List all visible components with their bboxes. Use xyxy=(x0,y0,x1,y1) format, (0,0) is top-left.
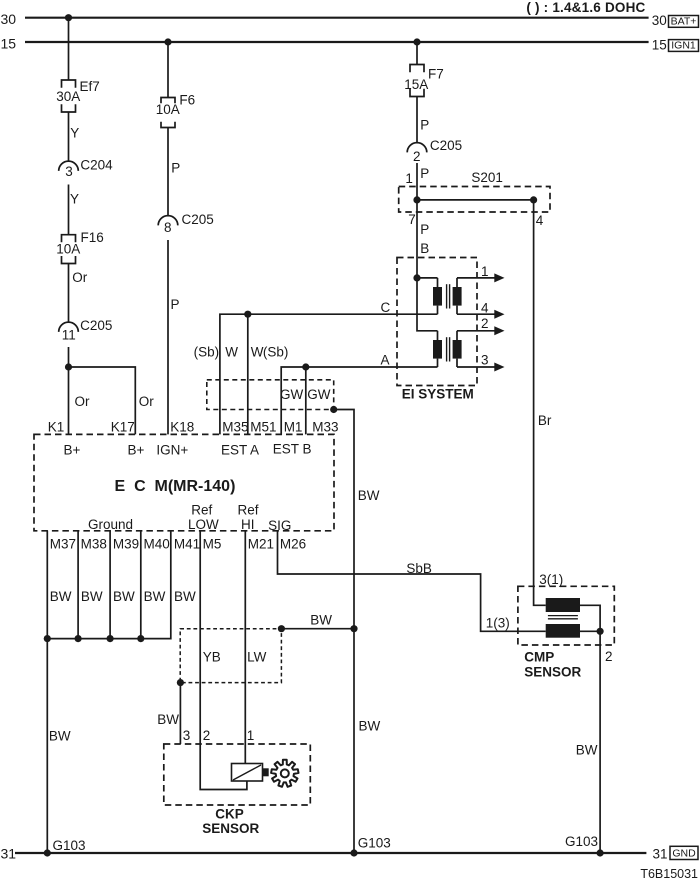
svg-text:30: 30 xyxy=(652,13,667,28)
svg-text:1: 1 xyxy=(247,728,255,743)
svg-text:BW: BW xyxy=(81,589,103,604)
pin M33 xyxy=(312,419,338,434)
svg-text:4: 4 xyxy=(481,300,489,315)
CKP pin 3 xyxy=(183,728,191,743)
svg-text:( ) : 1.4&1.6 DOHC: ( ) : 1.4&1.6 DOHC xyxy=(526,0,645,15)
ground G103 left xyxy=(44,838,86,857)
title note xyxy=(526,0,645,15)
wire BW shield to CKP pin 3 xyxy=(157,683,180,744)
svg-text:2: 2 xyxy=(203,728,211,743)
svg-text:31: 31 xyxy=(1,845,17,861)
svg-text:4: 4 xyxy=(536,213,544,228)
ignition coil 1 core xyxy=(447,284,450,308)
svg-text:P: P xyxy=(420,222,429,237)
svg-text:BW: BW xyxy=(310,613,332,628)
svg-text:P: P xyxy=(420,117,429,132)
svg-text:2: 2 xyxy=(481,316,489,331)
BAT+ terminal box xyxy=(669,16,699,28)
CMP pin 2 xyxy=(605,649,613,664)
pin K18 xyxy=(170,419,194,434)
svg-text:M5: M5 xyxy=(203,537,222,552)
wire feed to coil 1 primary xyxy=(417,277,438,279)
node shield drain xyxy=(330,406,337,413)
bus 31 xyxy=(1,845,668,861)
EST shield box xyxy=(207,380,334,410)
node on BW down-wire xyxy=(350,625,357,632)
svg-text:8: 8 xyxy=(164,220,172,235)
pin name Ground xyxy=(88,517,133,532)
bus 15 xyxy=(1,35,667,52)
node ground bus M40 xyxy=(137,635,144,642)
svg-text:1: 1 xyxy=(405,171,413,186)
svg-text:B: B xyxy=(420,241,429,256)
pin name IGN+ xyxy=(156,443,188,458)
svg-text:11: 11 xyxy=(62,328,76,343)
wire YB M5 to CKP pin 2 xyxy=(200,531,247,790)
wire BW M40 xyxy=(141,531,166,639)
svg-text:GW: GW xyxy=(280,387,304,402)
node CKP shield drain bottom xyxy=(177,679,184,686)
svg-text:2: 2 xyxy=(413,149,421,164)
CMP pin 1(3) xyxy=(486,615,510,630)
svg-text:M1: M1 xyxy=(284,419,303,434)
svg-text:C205: C205 xyxy=(182,212,214,227)
svg-text:BW: BW xyxy=(113,589,135,604)
svg-text:C: C xyxy=(381,300,391,315)
svg-text:3: 3 xyxy=(183,728,191,743)
svg-text:BW: BW xyxy=(49,729,71,744)
CKP pickup coil element xyxy=(232,764,269,782)
CKP reluctor gear xyxy=(271,760,298,787)
svg-text:M37: M37 xyxy=(50,537,76,552)
pin M21 xyxy=(248,537,274,552)
pin M38 xyxy=(81,537,107,552)
svg-text:K1: K1 xyxy=(48,419,65,434)
node M33 tap xyxy=(302,363,309,370)
svg-text:C205: C205 xyxy=(80,318,112,333)
pin M41 xyxy=(174,537,200,552)
pin M39 xyxy=(113,537,139,552)
node M51 tap xyxy=(244,311,251,318)
svg-text:SENSOR: SENSOR xyxy=(202,821,259,836)
node S201 left xyxy=(413,196,420,203)
svg-text:G103: G103 xyxy=(565,834,598,849)
svg-text:IGN1: IGN1 xyxy=(671,40,696,52)
pin name Ref HI xyxy=(238,502,259,532)
svg-text:M21: M21 xyxy=(248,537,274,552)
CKP pin 1 xyxy=(247,728,255,743)
svg-text:EST A: EST A xyxy=(221,443,259,458)
svg-text:A: A xyxy=(381,352,390,367)
svg-text:Y: Y xyxy=(70,192,79,207)
svg-text:BW: BW xyxy=(157,712,179,727)
svg-text:2: 2 xyxy=(605,649,613,664)
wire Y C204 to fuse F16 xyxy=(69,185,80,236)
svg-text:30: 30 xyxy=(1,11,17,27)
svg-text:F16: F16 xyxy=(81,230,104,245)
pin M51 xyxy=(250,419,276,434)
node A wire label xyxy=(381,352,390,367)
node B+ split xyxy=(65,363,72,370)
svg-text:W: W xyxy=(251,345,264,360)
wire BW M38 xyxy=(78,531,103,639)
svg-text:G103: G103 xyxy=(358,835,391,850)
svg-text:Or: Or xyxy=(139,394,155,409)
CMP element lower bar xyxy=(546,624,580,638)
svg-text:BW: BW xyxy=(174,589,196,604)
svg-text:CKP: CKP xyxy=(215,807,244,822)
pin name EST B xyxy=(273,441,312,456)
node ground bus M39 xyxy=(107,635,114,642)
fuse Ef7 30A xyxy=(56,79,99,112)
svg-text:P: P xyxy=(171,297,180,312)
svg-text:LOW: LOW xyxy=(188,517,219,532)
svg-text:BW: BW xyxy=(50,589,72,604)
fuse F7 15A xyxy=(404,65,443,97)
node S201 right xyxy=(530,196,537,203)
svg-text:B+: B+ xyxy=(128,443,145,458)
wire BW M41 xyxy=(47,531,196,639)
connector C204 pin 3 xyxy=(59,158,113,180)
pin M35 xyxy=(222,419,248,434)
svg-text:30A: 30A xyxy=(56,89,80,104)
svg-text:3(1): 3(1) xyxy=(539,572,563,587)
svg-text:BW: BW xyxy=(358,488,380,503)
svg-text:M33: M33 xyxy=(312,419,338,434)
wire P B S201 to EI system xyxy=(417,200,429,278)
node CKP shield drain top xyxy=(278,625,285,632)
svg-text:SENSOR: SENSOR xyxy=(524,665,581,680)
svg-text:1: 1 xyxy=(481,264,489,279)
wire LW M21 to CKP pin 1 xyxy=(244,531,246,764)
svg-text:M39: M39 xyxy=(113,537,139,552)
svg-text:BW: BW xyxy=(359,718,381,733)
fuse F16 10A xyxy=(56,230,103,263)
wire bus15 to fuse F7 xyxy=(416,42,418,65)
svg-text:31: 31 xyxy=(653,847,668,862)
svg-text:K18: K18 xyxy=(170,419,194,434)
node C wire label xyxy=(381,300,391,315)
svg-text:LW: LW xyxy=(247,649,267,664)
svg-text:BW: BW xyxy=(576,743,598,758)
svg-text:B+: B+ xyxy=(64,443,81,458)
wire BW CMP to G103 xyxy=(576,631,600,853)
svg-text:W: W xyxy=(225,345,238,360)
CMP SENSOR box xyxy=(518,586,614,679)
node on bus 15 (F7 feed) xyxy=(413,38,420,45)
pin M37 xyxy=(50,537,76,552)
pin K17 xyxy=(111,419,135,434)
ignition coil 2 primary winding xyxy=(433,331,442,367)
spark output 3 xyxy=(457,353,505,372)
svg-text:M40: M40 xyxy=(144,537,170,552)
wire bus30 to fuse Ef7 xyxy=(68,18,70,80)
wire EST A line C xyxy=(220,314,438,434)
pin name Ref LOW xyxy=(188,502,219,532)
node ground bus M37 xyxy=(44,635,51,642)
svg-text:15A: 15A xyxy=(404,77,428,92)
ignition coil 1 primary winding xyxy=(433,278,442,314)
svg-text:1(3): 1(3) xyxy=(486,615,510,630)
wire shield drain to BW down-wire xyxy=(334,410,354,854)
connector C205 pin 2 xyxy=(407,138,462,164)
pin 7 of S201 xyxy=(408,212,416,227)
connector C205 pin 11 xyxy=(59,318,113,343)
svg-text:M51: M51 xyxy=(250,419,276,434)
svg-text:T6B15031: T6B15031 xyxy=(640,867,698,881)
wire BW labels on drain wire xyxy=(358,488,381,733)
wire CMP upper bar to pin 2 junction xyxy=(580,605,600,631)
svg-text:IGN+: IGN+ xyxy=(156,443,188,458)
svg-text:15: 15 xyxy=(652,37,667,52)
node CMP pin 2 junction xyxy=(597,628,604,635)
svg-text:EST B: EST B xyxy=(273,441,312,456)
pin 4 of S201 xyxy=(536,213,544,228)
svg-text:F7: F7 xyxy=(428,66,444,81)
svg-text:SbB: SbB xyxy=(406,561,432,576)
svg-text:SIG: SIG xyxy=(268,518,291,533)
wire Or F16 to C205 xyxy=(69,264,88,322)
svg-text:15: 15 xyxy=(1,35,17,51)
CKP pin 2 xyxy=(203,728,211,743)
connector C205 pin 8 xyxy=(158,212,214,235)
svg-text:YB: YB xyxy=(203,649,221,664)
pin M40 xyxy=(144,537,170,552)
pin name SIG xyxy=(268,518,291,533)
svg-text:(Sb): (Sb) xyxy=(263,345,289,360)
svg-text:E C M(MR-140): E C M(MR-140) xyxy=(115,478,236,495)
svg-text:M41: M41 xyxy=(174,537,200,552)
svg-text:HI: HI xyxy=(241,517,255,532)
wire color labels (Sb) W W (Sb) xyxy=(194,345,289,360)
svg-text:Ground: Ground xyxy=(88,517,133,532)
svg-text:F6: F6 xyxy=(179,93,195,108)
CKP shield box xyxy=(180,629,281,683)
ignition coil 2 secondary winding xyxy=(453,331,462,367)
pin M26 xyxy=(280,537,306,552)
ignition coil 1 secondary winding xyxy=(453,278,462,314)
svg-text:(Sb): (Sb) xyxy=(194,345,220,360)
svg-text:3: 3 xyxy=(481,353,489,368)
svg-text:Or: Or xyxy=(72,270,88,285)
ground G103 right xyxy=(565,834,604,857)
spark output 2 xyxy=(457,316,505,335)
wire M33 drop xyxy=(305,367,307,434)
wire SbB M26 to CMP pin 1(3) xyxy=(278,531,546,632)
svg-text:C205: C205 xyxy=(430,138,462,153)
svg-text:P: P xyxy=(420,166,429,181)
fuse F6 10A xyxy=(156,93,195,128)
wire feed down to coil 2 xyxy=(417,278,438,331)
wire P C205 to S201 pin 1 xyxy=(405,163,429,200)
svg-text:Ef7: Ef7 xyxy=(80,79,100,94)
spark output 4 xyxy=(457,300,505,318)
pin name B+ (K17) xyxy=(128,443,145,458)
svg-text:7: 7 xyxy=(408,212,416,227)
wire bus15 to fuse F6 xyxy=(167,42,169,98)
IGN1 terminal box xyxy=(669,40,699,52)
svg-text:Ref: Ref xyxy=(191,502,212,517)
svg-text:K17: K17 xyxy=(111,419,135,434)
svg-text:CMP: CMP xyxy=(524,649,554,664)
wire BW M37 to ground bus xyxy=(47,531,72,853)
svg-text:G103: G103 xyxy=(53,838,86,853)
svg-text:BAT+: BAT+ xyxy=(671,16,697,28)
svg-text:Br: Br xyxy=(538,413,552,428)
wire BW shield to main ground wire xyxy=(281,613,354,629)
CMP element core lines xyxy=(548,616,578,619)
wire inside S201 xyxy=(417,199,534,201)
wire P C205 to K18 xyxy=(168,240,180,434)
splice S201 box xyxy=(399,170,550,212)
wire C205 to node xyxy=(68,347,70,367)
pin name B+ (K1) xyxy=(64,443,81,458)
spark output 1 xyxy=(457,264,505,282)
wire Or node to K1 xyxy=(69,367,91,434)
diagram code T6B15031 xyxy=(640,867,698,881)
wire M51 drop xyxy=(247,314,249,434)
wire BW M39 xyxy=(110,531,135,639)
svg-text:GW: GW xyxy=(307,387,331,402)
node coil feed xyxy=(413,274,420,281)
wire Br S201 pin4 to CMP xyxy=(534,200,552,605)
pin K1 xyxy=(48,419,65,434)
CKP SENSOR box xyxy=(164,744,310,836)
svg-text:M35: M35 xyxy=(222,419,248,434)
svg-text:10A: 10A xyxy=(56,241,80,256)
svg-text:M38: M38 xyxy=(81,537,107,552)
CMP pin 3(1) xyxy=(539,572,563,587)
node on bus 15 (IGN feed) xyxy=(164,38,171,45)
pin M5 xyxy=(203,537,222,552)
ignition coil 2 core xyxy=(447,337,450,361)
GND terminal box xyxy=(670,846,698,859)
pin name EST A xyxy=(221,443,259,458)
wire EST B line A xyxy=(281,367,437,434)
svg-text:EI SYSTEM: EI SYSTEM xyxy=(402,387,474,402)
pin M1 xyxy=(284,419,303,434)
bus 30 xyxy=(1,11,667,28)
wire P F7 to C205 xyxy=(417,97,429,143)
wire P F6 to C205 xyxy=(168,128,180,216)
svg-text:BW: BW xyxy=(144,589,166,604)
node on bus 30 xyxy=(65,14,72,21)
svg-text:C204: C204 xyxy=(80,158,113,173)
svg-text:Y: Y xyxy=(70,126,79,141)
node ground bus M38 xyxy=(75,635,82,642)
svg-text:Or: Or xyxy=(75,394,91,409)
ECM box xyxy=(34,434,334,530)
wire Or branch to K17 xyxy=(69,367,155,434)
ground G103 middle xyxy=(350,835,390,856)
wire CMP lower bar to pin 2 junction xyxy=(580,630,600,632)
svg-text:S201: S201 xyxy=(471,170,503,185)
svg-text:10A: 10A xyxy=(156,102,180,117)
wire Y fuse Ef7 to C204 xyxy=(69,112,80,161)
svg-text:3: 3 xyxy=(65,164,73,179)
svg-text:P: P xyxy=(171,160,180,175)
svg-text:GND: GND xyxy=(672,848,696,860)
svg-text:Ref: Ref xyxy=(238,502,259,517)
EI SYSTEM box xyxy=(397,258,477,402)
CMP element upper bar xyxy=(546,598,580,612)
svg-text:M26: M26 xyxy=(280,537,306,552)
